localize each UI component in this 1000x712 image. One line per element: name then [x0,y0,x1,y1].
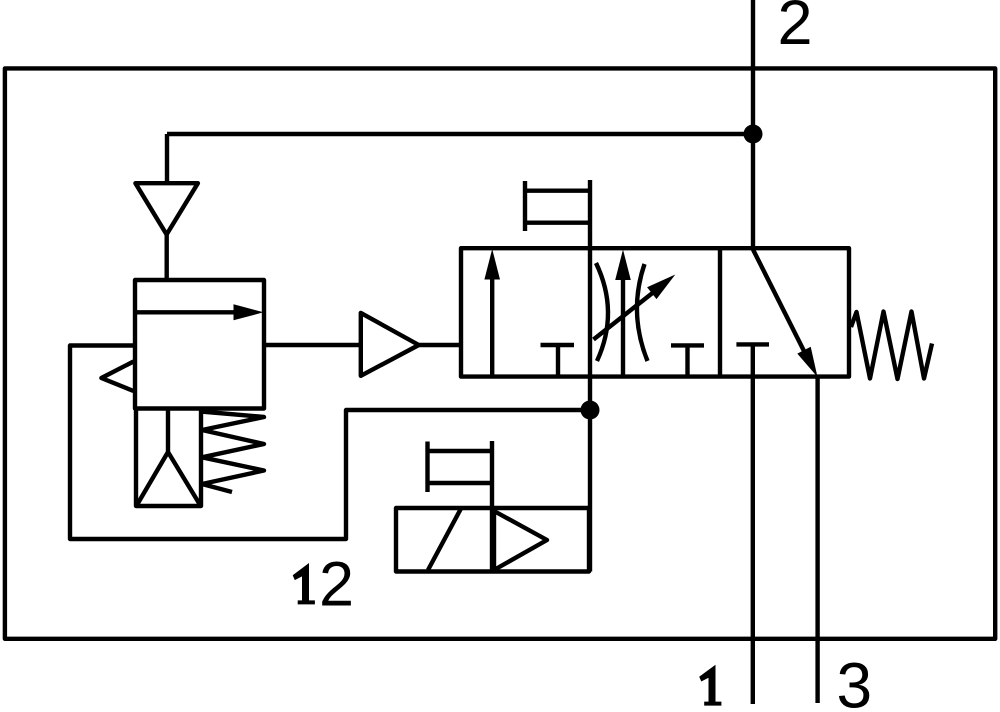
svg-text:2: 2 [319,550,354,620]
svg-text:3: 3 [837,650,873,712]
svg-text:2: 2 [778,0,813,58]
